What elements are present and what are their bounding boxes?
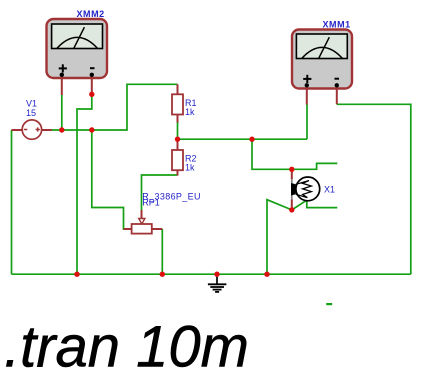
svg-text:1k: 1k: [185, 163, 195, 173]
junction: main wire / RP1 feed: [89, 127, 94, 132]
wire: main node wire from V1 plus to R1 top: [52, 84, 178, 130]
multimeter XMM1: [292, 30, 352, 105]
potentiometer RP1: [124, 210, 163, 234]
junction: mid wire / X1 branch: [249, 137, 254, 142]
resistor R2: [172, 139, 183, 175]
wire: R1 bottom to mid node: [177, 122, 179, 139]
wire: mid node down to lamp X1 top: [252, 139, 292, 169]
junction: XMM2 minus on bottom rail: [74, 272, 79, 277]
ground: [208, 274, 227, 292]
wire: stub right of X1 top: [292, 163, 338, 169]
svg-text:X1: X1: [324, 185, 335, 195]
wire: XMM2 minus lead down-left to bottom rail: [77, 94, 92, 274]
junction: RP1 right on bottom rail: [160, 272, 165, 277]
wire: mid node horizontal to XMM1 plus: [178, 138, 308, 140]
junction: X1 bottom: [289, 207, 294, 212]
svg-text:RP1: RP1: [142, 198, 160, 208]
wire: right rail from XMM1 minus down to bottom rail: [337, 104, 411, 274]
wire: main node down to RP1 left terminal: [92, 130, 131, 229]
wire: X1 bottom diagonal to bulb base stub: [292, 200, 338, 210]
wire: XMM1 plus lead down: [306, 104, 308, 139]
lamp X1: [291, 169, 320, 210]
svg-text:1k: 1k: [185, 107, 195, 117]
svg-text:XMM1: XMM1: [323, 19, 351, 29]
junction: R1-R2 mid node: [175, 137, 180, 142]
wire: bottom ground rail: [12, 273, 411, 275]
svg-text:XMM2: XMM2: [77, 9, 105, 19]
wire: V1 left lead down to bottom rail: [11, 130, 13, 274]
junction: X1 return on bottom rail: [264, 272, 269, 277]
svg-text:V1: V1: [26, 98, 37, 108]
svg-text:.tran 10m: .tran 10m: [4, 315, 249, 380]
junction: XMM2 minus pin: [89, 92, 94, 97]
wire: R2 bottom to RP1 wiper: [142, 175, 178, 211]
wire: XMM2 plus lead down to main wire: [61, 95, 63, 131]
voltage source V1: [12, 120, 52, 139]
junction: X1 top: [289, 167, 294, 172]
multimeter XMM2: [47, 19, 108, 95]
junction: main wire / XMM2 plus: [59, 127, 64, 132]
net stub dash bottom right: [326, 303, 332, 305]
junction: ground on bottom rail: [214, 272, 219, 277]
wire: RP1 right terminal down to bottom rail: [161, 229, 163, 274]
resistor R1: [172, 84, 183, 122]
wire: X1 bottom diagonal to bottom rail: [267, 200, 292, 275]
svg-text:15: 15: [26, 108, 36, 118]
